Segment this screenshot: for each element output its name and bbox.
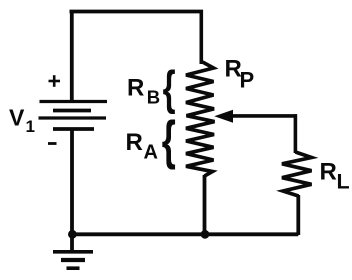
wire RP bottom stub [203, 175, 207, 235]
svg-text:A: A [144, 142, 158, 164]
battery V1 plate short bottom [53, 127, 94, 131]
svg-text:B: B [147, 87, 160, 108]
svg-text:V: V [9, 105, 25, 131]
node junction center [201, 230, 210, 239]
plus sign [49, 75, 61, 87]
wire left rail lower [70, 129, 74, 236]
wire RL bottom stub [296, 195, 300, 235]
wire left rail upper [70, 10, 74, 100]
svg-text:{: { [163, 61, 176, 114]
node junction left [68, 230, 77, 239]
label RB [127, 75, 160, 108]
label V1 [9, 105, 35, 137]
svg-text:L: L [337, 170, 350, 194]
svg-text:P: P [240, 68, 255, 93]
wiper arrow head [216, 110, 233, 122]
wire top horizontal [70, 10, 204, 14]
svg-text:R: R [320, 158, 337, 185]
battery V1 plate long top [40, 100, 108, 103]
svg-text:1: 1 [26, 117, 35, 136]
battery V1 plate long lower [39, 116, 107, 119]
label RL [320, 158, 350, 193]
label RP [225, 55, 255, 92]
minus sign [48, 142, 57, 145]
ground [53, 234, 93, 268]
svg-text:{: { [162, 109, 176, 170]
wire right rail upper [200, 10, 204, 64]
wiper wire corner vertical [294, 114, 298, 153]
wire bottom horizontal [70, 232, 298, 236]
label RA [126, 129, 158, 164]
load resistor RL zigzag [282, 152, 312, 196]
battery V1 plate short upper [53, 109, 91, 113]
svg-text:R: R [127, 75, 144, 102]
wiper wire horizontal [231, 114, 297, 118]
svg-text:R: R [126, 129, 143, 156]
potentiometer RP zigzag [186, 62, 215, 176]
